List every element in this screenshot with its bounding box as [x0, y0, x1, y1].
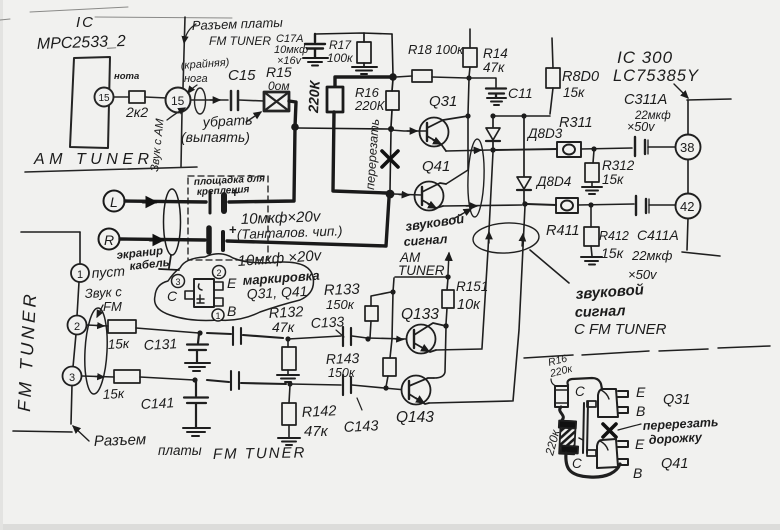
- capacitor C (tantalum chip) L channel 10мкф x20v: [210, 192, 224, 213]
- label R411: [546, 223, 580, 239]
- capacitor C133: [343, 327, 351, 346]
- marking cloud blob: [155, 254, 314, 321]
- wire Q143 emitter bottom to FM-R line: [429, 401, 512, 403]
- svg-text:38: 38: [680, 140, 694, 155]
- label R132 47к: [268, 304, 303, 335]
- label маркировка Q31,Q41: [242, 268, 320, 302]
- svg-text:платы: платы: [158, 443, 202, 458]
- svg-text:TUNER: TUNER: [398, 263, 445, 278]
- thick wire L to cap: [125, 201, 206, 202]
- label C17A 10мкф x16v: [274, 33, 308, 67]
- svg-text:B: B: [227, 303, 236, 319]
- pin label нота: [114, 71, 139, 82]
- svg-text:×16v: ×16v: [277, 55, 303, 67]
- svg-text:R142: R142: [301, 403, 336, 421]
- svg-text:C11: C11: [508, 85, 533, 101]
- thick wire R to cap: [120, 239, 205, 240]
- node R142 junction dot: [287, 381, 292, 386]
- label звуковой сигнал С FM TUNER: [574, 281, 667, 338]
- squiggle lead to 220k resistor: [560, 407, 564, 420]
- svg-text:C141: C141: [140, 394, 174, 412]
- connector pin circle 1: [71, 264, 89, 282]
- wire pin15 to C15: [191, 99, 228, 101]
- svg-text:Q133: Q133: [401, 306, 439, 323]
- resistor R412 15k: [584, 206, 599, 256]
- svg-text:FM TUNER: FM TUNER: [209, 34, 271, 48]
- svg-text:C: C: [572, 456, 582, 471]
- resistor R16 220K on rail: [386, 79, 399, 127]
- leader X to label: [618, 424, 641, 430]
- node Q31 collector dot: [465, 113, 470, 118]
- label Д8D4: [535, 174, 571, 189]
- node R18/R14 junction dot: [466, 75, 471, 80]
- svg-text:C143: C143: [343, 418, 378, 436]
- thick wire R cap to node B: [227, 198, 389, 246]
- arrow Звук с FM to wires: [97, 305, 103, 317]
- svg-text:Q143: Q143: [396, 409, 434, 426]
- svg-text:Q41: Q41: [661, 456, 688, 472]
- solder pad dashed box площадка для крепления: [188, 176, 268, 260]
- svg-text:220К: 220К: [354, 98, 386, 113]
- IC300 top wire: [687, 99, 731, 100]
- svg-text:C131: C131: [143, 335, 177, 353]
- resistor R15 0ом (to be removed, crossed): [264, 92, 289, 111]
- svg-text:C: C: [167, 288, 178, 304]
- node A junction dot: [291, 123, 299, 131]
- svg-text:IC 300: IC 300: [617, 48, 673, 67]
- svg-text:R: R: [104, 232, 114, 248]
- capacitor C141: [184, 381, 208, 427]
- wire Q41 emitter output (AM-R): [443, 205, 522, 206]
- svg-text:MPC2533_2: MPC2533_2: [37, 33, 127, 53]
- wire 15k to C141 node: [140, 377, 194, 380]
- label звуковой сигнал АМ TUNER: [398, 211, 465, 278]
- label Разъем платы FM TUNER bottom: [94, 431, 307, 463]
- thin rail from top wire to node C: [392, 34, 393, 75]
- node R143 bottom dot: [383, 385, 388, 390]
- node R133 junction dot: [365, 336, 370, 341]
- loop ellipse звуковой сигнал С FM TUNER: [472, 221, 539, 254]
- pictorial letters E B top: [636, 384, 646, 419]
- hatched resistor 220k pictorial: [559, 421, 578, 455]
- svg-text:3: 3: [69, 372, 75, 384]
- svg-text:47к: 47к: [272, 319, 296, 335]
- svg-text:220К: 220К: [305, 79, 323, 114]
- svg-text:C: C: [575, 384, 585, 399]
- svg-text:R18 100к: R18 100к: [408, 42, 464, 57]
- ground for C17A: [303, 58, 328, 66]
- svg-text:Q31: Q31: [429, 93, 457, 110]
- node C141 junction dot: [192, 377, 197, 382]
- svg-text:R8D0: R8D0: [562, 69, 599, 85]
- label (крайняя) нога: [180, 57, 230, 85]
- coupling capacitor row1: [207, 327, 283, 345]
- AM TUNER label: [33, 151, 154, 168]
- svg-text:нота: нота: [114, 71, 139, 82]
- svg-text:Q31, Q41: Q31, Q41: [246, 283, 307, 302]
- transistor Q41: [415, 182, 447, 211]
- transistor Q133: [407, 323, 447, 354]
- label R17 100к: [327, 38, 354, 65]
- chip resistor R16 pictorial: [555, 386, 568, 407]
- dashed divider line: [524, 346, 770, 358]
- transistor package body: [185, 279, 223, 307]
- diode D8D4: [517, 117, 531, 202]
- arrow нога to pin circle: [188, 85, 197, 93]
- svg-text:пуст: пуст: [91, 263, 126, 281]
- label R151 10к: [456, 279, 488, 313]
- wire R132 node to C133: [288, 336, 341, 339]
- leader line loop to FM label: [530, 250, 569, 283]
- svg-text:2: 2: [74, 321, 80, 333]
- label 10мкф x20v second: [237, 247, 323, 270]
- wire Q31 emitter output (AM-L): [446, 150, 490, 151]
- svg-text:C133: C133: [310, 313, 344, 331]
- label R142 47к: [301, 403, 336, 440]
- wire C311A to pin 38: [648, 146, 676, 148]
- svg-text:LC75385Y: LC75385Y: [613, 67, 699, 85]
- node C131 junction dot: [197, 330, 202, 335]
- node B thick junction dot (Q41 base node): [386, 190, 395, 199]
- label R14 47к: [483, 46, 508, 75]
- resistor 2k2: [125, 91, 148, 120]
- svg-text:15: 15: [171, 94, 185, 108]
- svg-text:Q41: Q41: [422, 158, 450, 175]
- svg-text:2к2: 2к2: [125, 104, 148, 120]
- svg-text:С FM TUNER: С FM TUNER: [574, 321, 667, 338]
- label Звук с АМ rotated: [149, 118, 167, 173]
- PCB trace top: [568, 378, 603, 389]
- leader line C143 label: [357, 398, 362, 410]
- IC pin circle 42: [676, 194, 701, 219]
- resistor R151 10k: [442, 278, 454, 324]
- transistor Q31 pictorial body: [598, 389, 628, 417]
- ground for R17: [352, 67, 377, 74]
- diode D8D3: [486, 117, 500, 148]
- label C411A 22мкф x50v: [628, 227, 679, 282]
- wire Q31 base: [391, 130, 426, 131]
- svg-text:R143: R143: [326, 350, 360, 367]
- arrow Звук с АМ to pin: [167, 108, 185, 120]
- svg-text:E: E: [227, 275, 237, 291]
- arrowheads inside loop: [488, 232, 490, 243]
- ground for C11: [487, 98, 506, 105]
- svg-text:Д8D3: Д8D3: [526, 126, 563, 141]
- svg-text:47к: 47к: [483, 60, 505, 75]
- FM supply rail: [386, 278, 394, 387]
- label R16 220к (pictorial): [547, 353, 575, 381]
- capacitor C143: [343, 375, 351, 395]
- svg-text:R151: R151: [456, 279, 488, 294]
- svg-text:Разъем платы: Разъем платы: [192, 15, 284, 33]
- capacitor C (tantalum chip) R channel 10мкф x20v: [209, 228, 223, 252]
- label R133 150к: [324, 281, 361, 312]
- label C141: [140, 394, 174, 412]
- resistor R8D0 15k: [546, 38, 560, 114]
- svg-text:15к: 15к: [602, 172, 624, 187]
- wire to C11: [469, 78, 496, 87]
- resistor 15k (FM-R): [114, 370, 140, 383]
- screen cable ellipse: [164, 189, 181, 255]
- svg-text:47к: 47к: [304, 423, 329, 440]
- svg-text:AM TUNER: AM TUNER: [33, 151, 154, 168]
- label R16 220К: [354, 85, 386, 113]
- resistor R17: [357, 33, 371, 66]
- collector rail Q31/Q41: [446, 79, 469, 184]
- node C thick dot: [389, 73, 397, 81]
- svg-text:×50v: ×50v: [628, 267, 658, 282]
- AM supply wire: [395, 276, 448, 278]
- svg-text:2: 2: [217, 268, 222, 278]
- label пуст: [91, 263, 126, 281]
- svg-text:R412: R412: [599, 229, 629, 243]
- label C311A 22мкф x50v: [624, 92, 671, 134]
- FM board connector rail: [71, 232, 80, 424]
- PCB trace bottom loop thick: [566, 453, 620, 477]
- FM board bottom-left wire: [13, 431, 72, 432]
- resistor R14 47k: [463, 29, 477, 77]
- IC300 bottom stub wire: [682, 252, 720, 256]
- node R132 junction dot: [285, 336, 290, 341]
- svg-text:3: 3: [176, 277, 181, 287]
- wire C411A to pin 42: [649, 204, 676, 206]
- resistor 15k (FM-L): [108, 320, 136, 333]
- package pin letters C E B: [167, 275, 237, 319]
- circled pin 1: [212, 309, 224, 321]
- svg-text:100к: 100к: [327, 51, 354, 65]
- label C143: [343, 418, 378, 436]
- svg-text:×50v: ×50v: [627, 120, 655, 134]
- label 15к FM-R: [102, 386, 125, 402]
- svg-text:дорожку: дорожку: [648, 430, 703, 447]
- svg-text:E: E: [635, 436, 645, 452]
- ground for C131: [185, 363, 210, 371]
- wire 15k to C131 node: [136, 328, 199, 333]
- capacitor C131: [187, 334, 208, 362]
- AM TUNER board bottom border: [25, 167, 197, 172]
- wire R8D0 to diodes: [493, 115, 550, 117]
- label 15к FM-L: [107, 336, 130, 352]
- svg-text:15: 15: [99, 93, 111, 104]
- wire pin3 to 15k: [82, 376, 114, 377]
- cut mark X перерезать: [382, 151, 398, 167]
- node Q133 collector dot: [443, 323, 448, 328]
- connector pin circle 2: [68, 316, 87, 335]
- wire C133 to Q133 base: [352, 336, 406, 339]
- svg-text:Q31: Q31: [663, 392, 690, 408]
- cut mark X дорожка: [603, 424, 616, 437]
- cable ellipse at pin 15: [195, 88, 206, 114]
- label 10мкф x20v inside blob top: [0, 0, 1, 1]
- label 220к rotated (pictorial): [542, 427, 563, 458]
- label C133: [310, 313, 344, 331]
- svg-text:C311A: C311A: [624, 92, 667, 108]
- label R312 15к: [602, 158, 635, 187]
- pin 15 circle on IC: [95, 88, 114, 107]
- arrow Разъем to rail: [73, 426, 89, 441]
- resistor R132 47k: [282, 340, 296, 374]
- label Д8D3: [526, 126, 563, 141]
- label 220К rotated bold: [305, 79, 323, 114]
- AM TUNER board right border: [181, 17, 185, 167]
- arrow from label to border: [184, 24, 196, 43]
- wire R411 to C411A: [578, 204, 634, 205]
- IC pin circle 38: [676, 135, 701, 160]
- label Q143: [396, 409, 434, 426]
- arrow АМ label to wire: [453, 209, 471, 219]
- transistor Q31: [420, 116, 469, 151]
- middle base trace: [579, 401, 596, 456]
- thick wire R15 to node A down to L cap: [229, 101, 296, 202]
- label площадка для крепления: [194, 173, 266, 198]
- top wire C17A-R17-rail: [315, 33, 392, 34]
- transistor Q41 pictorial body: [597, 439, 628, 468]
- connector pin 15 circle (крайняя нога): [166, 88, 191, 113]
- FM-L sense line through loop: [482, 152, 493, 348]
- transistor Q143: [402, 376, 435, 405]
- chip resistor R311: [495, 142, 581, 157]
- wire 2k2 to connector pin 15: [145, 97, 167, 98]
- svg-text:15к: 15к: [563, 85, 585, 100]
- svg-text:R14: R14: [483, 46, 508, 61]
- ground for R412: [581, 257, 602, 265]
- wire Q41 base from node B: [394, 194, 421, 195]
- svg-text:FM: FM: [103, 299, 122, 314]
- thick added resistor 220K path top: [335, 77, 391, 87]
- ground for C141: [183, 428, 210, 436]
- node R412 junction dot: [588, 202, 593, 207]
- svg-text:15к: 15к: [102, 386, 125, 402]
- svg-text:1: 1: [216, 311, 221, 321]
- label Q133: [401, 306, 439, 323]
- svg-text:E: E: [636, 384, 646, 400]
- svg-text:R411: R411: [546, 223, 580, 239]
- ground for R132: [277, 375, 299, 382]
- resistor R312 15k: [585, 150, 599, 186]
- capacitor C17A symbol: [305, 34, 325, 57]
- svg-text:C411A: C411A: [637, 227, 679, 243]
- cable ellipse around pins 2,3: [83, 307, 109, 394]
- resistor R142 47k: [282, 385, 296, 437]
- pictorial letter C bottom: [572, 456, 582, 471]
- svg-text:B: B: [636, 403, 645, 419]
- label C131: [143, 335, 177, 353]
- label экранир кабель: [116, 245, 170, 273]
- svg-text:убрать: убрать: [201, 111, 253, 130]
- label R18 100к: [408, 42, 464, 57]
- capacitor C411A: [636, 196, 649, 215]
- arrow stub AM signal in: [448, 253, 449, 274]
- wire C143 to Q143 base: [352, 385, 406, 390]
- label Q31: [429, 93, 457, 110]
- svg-text:сигнал: сигнал: [575, 303, 626, 321]
- svg-text:L: L: [110, 194, 118, 210]
- node AM-L junction dot: [490, 147, 495, 152]
- label Q41 pictorial: [661, 456, 688, 472]
- wire pin15 to 2k2: [113, 96, 129, 98]
- ground for R312: [582, 187, 602, 194]
- rail junction dot below R16: [388, 126, 394, 132]
- svg-text:R312: R312: [602, 158, 635, 173]
- page edge marks top: [0, 7, 232, 20]
- capacitor C11: [486, 89, 506, 98]
- input jack L: [104, 191, 125, 212]
- label Q41: [422, 158, 450, 175]
- svg-text:1: 1: [77, 269, 83, 281]
- wire R142 node to C143: [290, 384, 341, 385]
- loop ellipse around AM output wires: [467, 139, 486, 218]
- ground for R142: [278, 438, 300, 445]
- circled pin 2: [213, 266, 226, 279]
- resistor 220K (added, thick): [327, 87, 343, 112]
- node R151 top dot: [445, 274, 450, 279]
- label Звук с FM: [84, 284, 122, 314]
- svg-text:FM TUNER: FM TUNER: [213, 444, 307, 463]
- label перерезать дорожку: [642, 415, 718, 447]
- wire pin2 to 15k: [87, 325, 108, 326]
- arrow from label to IC wire: [674, 84, 688, 98]
- svg-text:150к: 150к: [326, 297, 355, 312]
- label перерезать rotated: [363, 118, 382, 190]
- connector pin circle 3: [63, 367, 82, 386]
- rail segment to node B with cut: [390, 131, 391, 190]
- label 10мкф x20v (Танталов. чип.): [237, 208, 343, 242]
- label R8D0 15к: [562, 69, 599, 100]
- resistor R133 150k: [365, 292, 391, 338]
- FM board top wire: [21, 231, 80, 233]
- FM TUNER vertical label: [14, 290, 40, 412]
- resistor R18 100k: [396, 70, 467, 82]
- svg-text:10к: 10к: [457, 297, 481, 313]
- coupling capacitor row2: [207, 371, 286, 390]
- capacitor C311A: [635, 137, 648, 156]
- IC300 vertical wire: [687, 100, 688, 250]
- label Разъем платы FM TUNER: [192, 15, 284, 48]
- wire R311 to C311A: [581, 148, 632, 149]
- label IC 300 LC75385Y: [613, 48, 699, 85]
- svg-text:(выпаять): (выпаять): [181, 129, 250, 145]
- svg-text:15к: 15к: [107, 336, 130, 352]
- wire Q133 emitter to FM-L line: [436, 349, 482, 350]
- chip resistor R411: [527, 198, 578, 213]
- IC U1 body: [70, 57, 110, 148]
- wire C15 to R15: [239, 100, 264, 101]
- label R412 15к: [599, 229, 629, 261]
- pictorial letter C top: [575, 384, 585, 399]
- label R311: [559, 115, 593, 131]
- wire node A to Q31 base rail: [298, 128, 389, 129]
- label R143 150к: [326, 350, 360, 380]
- svg-text:Д8D4: Д8D4: [535, 174, 571, 189]
- svg-text:15к: 15к: [601, 245, 625, 261]
- svg-text:Разъем: Разъем: [94, 431, 147, 450]
- capacitor C15: [231, 91, 238, 110]
- FM-R sense line through loop: [513, 206, 525, 401]
- node AM-R junction dot: [522, 201, 527, 206]
- svg-text:22мкф: 22мкф: [631, 248, 673, 263]
- collector rail Q133-Q143: [434, 327, 446, 378]
- circled pin 3: [172, 275, 185, 288]
- IC U1 label MPC2533_2: [37, 14, 127, 53]
- svg-text:B: B: [633, 465, 642, 481]
- svg-text:R17: R17: [329, 38, 352, 52]
- svg-text:42: 42: [680, 199, 694, 214]
- node R133 top dot on rail: [390, 289, 395, 294]
- leader R16 label to chip: [551, 379, 556, 386]
- svg-text:C15: C15: [228, 67, 256, 84]
- input jack R: [99, 229, 120, 250]
- leader line C133 label: [336, 330, 344, 337]
